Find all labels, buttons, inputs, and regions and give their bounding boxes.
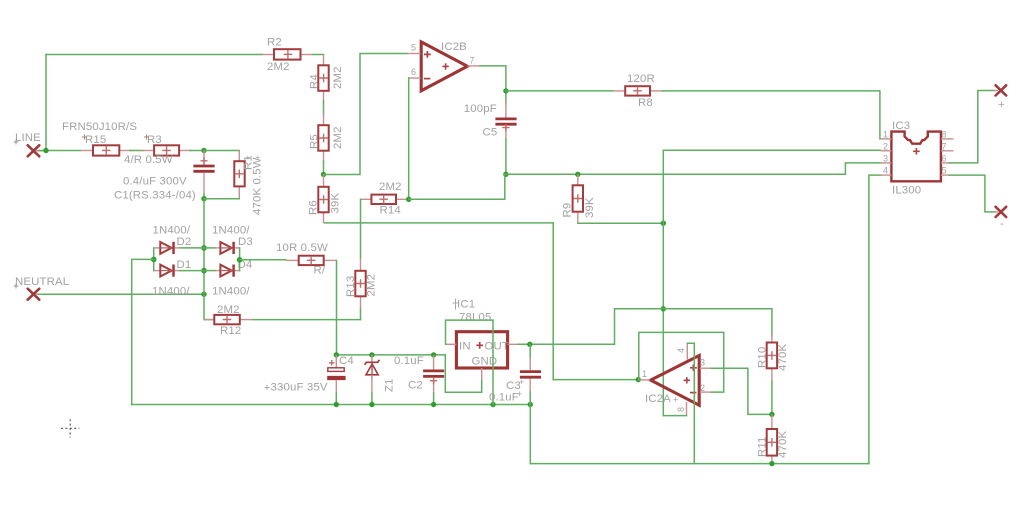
capacitor C4 bbox=[265, 355, 354, 405]
node junction at LINE column bbox=[43, 148, 48, 153]
wire IC2B out to C5 node bbox=[480, 66, 506, 104]
diode D4 bbox=[204, 259, 252, 298]
wire IC1 IN loop to rail B bbox=[446, 320, 494, 404]
svg-text:2M2: 2M2 bbox=[332, 66, 344, 89]
svg-text:IC1: IC1 bbox=[457, 299, 475, 311]
wire IC2A pin4 to bottom rail bbox=[687, 343, 694, 463]
resistor R4 bbox=[309, 55, 345, 104]
wire IC1 OUT to C3 node bbox=[508, 309, 664, 345]
node C1 bottom junction bbox=[201, 196, 206, 201]
node R9 bottom junction bbox=[661, 221, 666, 226]
svg-text:39K: 39K bbox=[330, 193, 342, 214]
node NEUTRAL terminal X bbox=[14, 276, 70, 300]
wire bridge right to R7 bbox=[240, 259, 286, 261]
wire rail B ground bbox=[132, 404, 531, 406]
capacitor C5 bbox=[464, 102, 517, 139]
svg-text:470K 0.5W: 470K 0.5W bbox=[252, 157, 264, 215]
node rail A at C4 bbox=[334, 352, 339, 357]
svg-text:IL300: IL300 bbox=[892, 185, 921, 197]
node rail A at C2 bbox=[431, 352, 436, 357]
node bridge right bbox=[237, 257, 243, 263]
svg-text:120R: 120R bbox=[627, 73, 655, 85]
wire R10 to node bbox=[771, 381, 773, 414]
node net dot at 308 bbox=[661, 306, 666, 311]
wire bridge center column bbox=[204, 199, 214, 320]
wire IC2A pin8 jog bbox=[663, 415, 686, 417]
svg-text:39K: 39K bbox=[584, 197, 596, 218]
svg-text:R12: R12 bbox=[220, 325, 241, 337]
wire R13 bottom to R12 wire bbox=[360, 309, 362, 320]
svg-text:D1: D1 bbox=[177, 259, 192, 271]
svg-text:0.1uF: 0.1uF bbox=[489, 392, 519, 404]
svg-text:IC2A: IC2A bbox=[645, 393, 671, 405]
regulator IC1 78L05 bbox=[453, 299, 510, 369]
resistor R6 bbox=[308, 175, 342, 224]
svg-text:+: + bbox=[519, 377, 524, 387]
node R9 top junction bbox=[575, 172, 580, 177]
svg-text:4: 4 bbox=[676, 348, 686, 353]
wire IC3 pin5 to minus terminal bbox=[950, 175, 995, 212]
svg-text:470K: 470K bbox=[777, 344, 789, 371]
wire node to R1 bbox=[204, 150, 239, 152]
svg-text:IN: IN bbox=[459, 341, 471, 353]
resistor R3 bbox=[142, 134, 192, 156]
node rail B at IN loop bbox=[490, 402, 495, 407]
optocoupler IC3 IL300 bbox=[881, 120, 954, 197]
svg-text:R15: R15 bbox=[85, 134, 106, 146]
wire node to R8 bbox=[506, 90, 613, 92]
node IC2A out junction bbox=[636, 377, 641, 382]
svg-text:100pF: 100pF bbox=[464, 103, 497, 115]
node NEUTRAL junction bbox=[201, 292, 206, 297]
svg-text:C2: C2 bbox=[408, 380, 423, 392]
diode D2 bbox=[153, 225, 192, 255]
svg-text:R2: R2 bbox=[267, 37, 282, 49]
wire top row to R2 bbox=[46, 54, 262, 56]
svg-text:3: 3 bbox=[883, 154, 888, 164]
svg-text:0.1uF: 0.1uF bbox=[394, 355, 424, 367]
node LINE terminal X bbox=[14, 132, 45, 156]
node minus terminal X bbox=[994, 207, 1007, 230]
wire junction to IC2B pin5 bbox=[324, 54, 408, 175]
svg-text:3: 3 bbox=[700, 358, 705, 368]
svg-text:R8: R8 bbox=[638, 97, 653, 109]
svg-text:1N400/: 1N400/ bbox=[153, 225, 191, 237]
svg-text:2M2: 2M2 bbox=[379, 181, 402, 193]
wire R5 to junction bbox=[323, 161, 325, 175]
wire IC1 GND to rail A bbox=[445, 355, 481, 392]
node output junction bbox=[503, 88, 508, 93]
svg-text:6: 6 bbox=[411, 67, 416, 77]
crosshair mark bottom left bbox=[61, 419, 79, 437]
wire bridge left column bbox=[153, 248, 155, 271]
wire R2 to R4 corner bbox=[313, 54, 324, 56]
svg-text:2M2: 2M2 bbox=[217, 304, 240, 316]
wire R15 to R3 bbox=[130, 150, 143, 152]
node C5 bottom junction bbox=[503, 172, 508, 177]
svg-text:5: 5 bbox=[942, 166, 947, 176]
svg-text:+: + bbox=[256, 153, 261, 162]
wire IC2B pin6 to R14 node bbox=[408, 78, 410, 199]
svg-text:C1(RS.334-/04): C1(RS.334-/04) bbox=[114, 190, 196, 202]
wire D2 to center bbox=[180, 247, 204, 249]
svg-text:8: 8 bbox=[676, 407, 686, 412]
node rail B at Z1 bbox=[369, 402, 374, 407]
wire bridge left to left rail bbox=[132, 259, 154, 404]
svg-text:330uF 35V: 330uF 35V bbox=[271, 382, 328, 394]
svg-text:IC3: IC3 bbox=[892, 120, 910, 132]
wire R3 to node bbox=[190, 150, 204, 152]
resistor R15 bbox=[81, 134, 133, 156]
svg-text:6: 6 bbox=[942, 154, 947, 164]
node rail B at C4 bbox=[334, 402, 339, 407]
wire R12 to R13 corner bbox=[253, 319, 361, 321]
svg-text:1: 1 bbox=[642, 369, 647, 379]
svg-text:C5: C5 bbox=[483, 127, 498, 139]
wire R9 bottom to vertical net bbox=[578, 222, 664, 224]
wire +5 rail R6 to riser bbox=[324, 222, 553, 224]
svg-text:0.4/uF 300V: 0.4/uF 300V bbox=[123, 176, 187, 188]
wire C3 node down to bottom rail bbox=[530, 405, 869, 464]
svg-text:1N400/: 1N400/ bbox=[152, 286, 190, 298]
capacitor C2 bbox=[394, 355, 444, 405]
node bridge mid center bbox=[201, 268, 207, 274]
svg-text:Z1: Z1 bbox=[384, 378, 396, 392]
wire D1 to center bbox=[180, 270, 204, 272]
svg-text:R14: R14 bbox=[380, 205, 401, 217]
wire R7 down to rail A bbox=[336, 260, 338, 355]
node rail B at C3 bbox=[528, 402, 533, 407]
node bridge left bbox=[151, 257, 157, 263]
node R11 bottom junction bbox=[769, 461, 774, 466]
svg-text:5: 5 bbox=[411, 43, 416, 53]
node R5-R6 junction bbox=[321, 172, 326, 177]
svg-text:1N400/: 1N400/ bbox=[212, 225, 250, 237]
node R10 R11 junction bbox=[769, 412, 774, 417]
svg-text:2M2: 2M2 bbox=[267, 61, 290, 73]
zener Z1 bbox=[365, 355, 396, 405]
svg-text:78L05: 78L05 bbox=[459, 312, 491, 324]
capacitor C3 bbox=[489, 344, 541, 404]
wire net308 to R10 bbox=[663, 309, 772, 337]
svg-text:R/: R/ bbox=[314, 265, 326, 277]
svg-text:FRN50J10R/S: FRN50J10R/S bbox=[62, 121, 137, 133]
svg-text:1: 1 bbox=[883, 130, 888, 140]
wire bridge right column bbox=[239, 248, 241, 271]
resistor R14 bbox=[361, 181, 409, 217]
wire C1 bottom to node bbox=[203, 194, 205, 199]
svg-text:R11: R11 bbox=[757, 437, 769, 458]
wire R4 to R5 bbox=[323, 101, 325, 115]
wire IC2A feedback pin2 to pin1 bbox=[639, 332, 724, 392]
wire IC2A pin3 to divider bbox=[711, 368, 772, 414]
resistor R12 bbox=[204, 304, 253, 337]
svg-text:R6: R6 bbox=[308, 200, 320, 215]
op-amp IC2B bbox=[407, 41, 480, 91]
capacitor C1 bbox=[193, 151, 214, 194]
wire R8 to IC3 pin1 bbox=[662, 91, 880, 139]
resistor R9 bbox=[562, 174, 597, 223]
resistor R8 bbox=[613, 73, 663, 109]
svg-text:R13: R13 bbox=[345, 276, 357, 297]
wire IC3 pin6 to plus terminal bbox=[950, 91, 995, 163]
svg-text:NEUTRAL: NEUTRAL bbox=[15, 276, 69, 288]
svg-text:470K: 470K bbox=[777, 431, 789, 458]
svg-text:OUT: OUT bbox=[485, 341, 510, 353]
wire rail A bbox=[336, 354, 445, 356]
svg-text:2M2: 2M2 bbox=[366, 274, 378, 297]
svg-text:8: 8 bbox=[942, 130, 947, 140]
svg-text:4: 4 bbox=[883, 166, 888, 176]
node rail A at Z1 bbox=[369, 352, 374, 357]
op-amp IC2A bbox=[638, 343, 711, 415]
resistor R13 bbox=[345, 259, 378, 309]
svg-text:-: - bbox=[1000, 218, 1004, 230]
svg-text:LINE: LINE bbox=[15, 132, 41, 144]
node rail B at C2 bbox=[431, 402, 436, 407]
svg-text:D2: D2 bbox=[177, 236, 192, 248]
wire IC2A out line bbox=[553, 379, 638, 381]
svg-text:7: 7 bbox=[470, 56, 475, 66]
node bridge top center bbox=[201, 245, 207, 251]
diode D3 bbox=[204, 225, 253, 255]
wire LINE to R15 and up-branch bbox=[39, 55, 81, 151]
svg-text:+: + bbox=[517, 389, 522, 399]
svg-text:R3: R3 bbox=[147, 134, 162, 146]
resistor R7 bbox=[276, 242, 337, 277]
svg-text:IC2B: IC2B bbox=[441, 41, 467, 53]
svg-text:+: + bbox=[673, 395, 678, 405]
svg-text:2: 2 bbox=[700, 383, 705, 393]
svg-text:R5: R5 bbox=[309, 134, 321, 149]
svg-text:R9: R9 bbox=[562, 203, 574, 218]
svg-text:+: + bbox=[246, 153, 251, 162]
rail y174 C5 to IC3 pin3 bbox=[506, 163, 881, 174]
svg-text:R10: R10 bbox=[757, 347, 769, 368]
diode D1 bbox=[152, 259, 191, 298]
wire bottom rail up to IC3 pin4 bbox=[869, 175, 881, 464]
node plus terminal X bbox=[994, 85, 1007, 111]
svg-text:D3: D3 bbox=[238, 236, 253, 248]
resistor R1 bbox=[234, 151, 263, 216]
svg-text:2M2: 2M2 bbox=[332, 126, 344, 149]
resistor R11 bbox=[757, 414, 790, 463]
resistor R2 bbox=[262, 37, 313, 74]
node OUT junction at C3 bbox=[527, 342, 532, 347]
wire NEUTRAL to bridge bbox=[39, 293, 205, 295]
node C1 top junction bbox=[201, 148, 206, 153]
wire C5 bottom to rail bbox=[505, 139, 507, 174]
wire vertical net IC3 pin2 down to IC2A pin8 bbox=[663, 150, 880, 415]
wire R14 left down to R13 bbox=[360, 199, 362, 258]
wire +5 riser down to IC2A out line bbox=[552, 223, 554, 380]
svg-text:C4: C4 bbox=[339, 355, 354, 367]
svg-text:7: 7 bbox=[942, 142, 947, 152]
svg-text:2: 2 bbox=[883, 142, 888, 152]
resistor R5 bbox=[309, 113, 345, 163]
svg-text:4/R 0.5W: 4/R 0.5W bbox=[124, 154, 173, 166]
node R14 output junction bbox=[406, 197, 411, 202]
svg-text:+: + bbox=[998, 99, 1005, 111]
wire R1 bottom to C1 bottom bbox=[204, 198, 239, 200]
wire R14 node to C5 rail bbox=[409, 174, 505, 199]
svg-text:1N400/: 1N400/ bbox=[212, 286, 250, 298]
svg-text:R4: R4 bbox=[309, 74, 321, 89]
resistor R10 bbox=[757, 334, 790, 381]
svg-text:10R 0.5W: 10R 0.5W bbox=[276, 242, 328, 254]
